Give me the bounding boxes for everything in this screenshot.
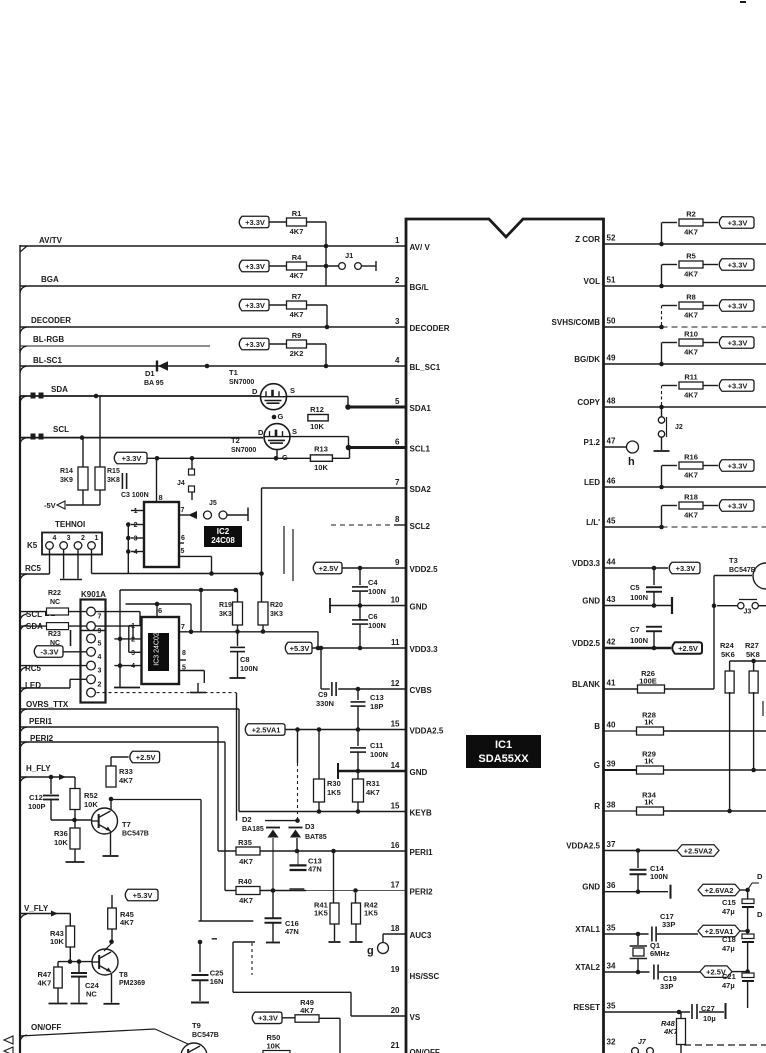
svg-text:10K: 10K	[314, 463, 328, 472]
svg-text:SDA55XX: SDA55XX	[478, 753, 529, 765]
svg-text:+3.3V: +3.3V	[728, 338, 748, 347]
svg-text:DECODER: DECODER	[31, 316, 71, 325]
svg-text:51: 51	[607, 276, 616, 285]
svg-text:R5: R5	[686, 252, 696, 261]
svg-text:BC547B: BC547B	[122, 831, 149, 838]
svg-text:BL-RGB: BL-RGB	[33, 335, 64, 344]
svg-text:10µ: 10µ	[703, 1014, 716, 1023]
svg-text:10K: 10K	[50, 937, 64, 946]
svg-text:R20: R20	[270, 602, 283, 609]
svg-text:49: 49	[607, 354, 616, 363]
svg-text:1: 1	[395, 236, 400, 245]
svg-text:3K8: 3K8	[107, 477, 120, 484]
svg-text:V_FLY: V_FLY	[24, 904, 49, 913]
svg-text:BA 95: BA 95	[144, 380, 164, 387]
svg-text:4K7: 4K7	[684, 270, 698, 279]
svg-text:SCL2: SCL2	[410, 522, 431, 531]
svg-text:BC547B: BC547B	[192, 1032, 219, 1039]
svg-text:R7: R7	[292, 292, 302, 301]
svg-text:SDA2: SDA2	[410, 485, 432, 494]
svg-text:CVBS: CVBS	[410, 686, 433, 695]
svg-text:1K: 1K	[644, 798, 654, 807]
svg-text:ON/OFF: ON/OFF	[31, 1023, 61, 1032]
svg-text:14: 14	[391, 761, 400, 770]
svg-text:HS/SSC: HS/SSC	[410, 972, 440, 981]
svg-text:D: D	[757, 872, 763, 881]
svg-text:36: 36	[607, 881, 616, 890]
svg-text:R10: R10	[684, 330, 698, 339]
svg-text:+2.6VA2: +2.6VA2	[705, 886, 734, 895]
svg-text:2: 2	[134, 522, 138, 529]
svg-text:L/L': L/L'	[586, 518, 600, 527]
svg-text:R12: R12	[310, 405, 324, 414]
svg-text:C11: C11	[370, 741, 383, 750]
svg-text:C8: C8	[240, 655, 250, 664]
svg-text:3: 3	[395, 317, 400, 326]
svg-text:BG/L: BG/L	[410, 283, 429, 292]
svg-text:8: 8	[159, 493, 163, 502]
svg-text:SCL1: SCL1	[410, 445, 431, 454]
svg-text:PM2369: PM2369	[119, 980, 145, 987]
svg-text:R23: R23	[48, 631, 61, 638]
svg-text:1K5: 1K5	[364, 909, 378, 918]
svg-text:21: 21	[391, 1041, 400, 1050]
svg-text:NC: NC	[86, 990, 97, 999]
svg-text:10: 10	[391, 596, 400, 605]
svg-text:AUC3: AUC3	[410, 931, 432, 940]
svg-text:SDA1: SDA1	[410, 404, 432, 413]
svg-text:9: 9	[395, 558, 400, 567]
svg-text:+3.3V: +3.3V	[728, 218, 748, 227]
svg-text:BAT85: BAT85	[305, 834, 327, 841]
svg-text:330N: 330N	[316, 699, 334, 708]
svg-text:33P: 33P	[662, 920, 675, 929]
svg-text:C12: C12	[29, 793, 43, 802]
svg-text:R27: R27	[745, 641, 759, 650]
svg-text:VDD3.3: VDD3.3	[572, 559, 601, 568]
svg-text:8: 8	[182, 650, 186, 657]
svg-text:4K7: 4K7	[684, 391, 698, 400]
svg-text:VDD2.5: VDD2.5	[572, 639, 601, 648]
svg-text:42: 42	[607, 638, 616, 647]
svg-text:15: 15	[391, 802, 400, 811]
svg-text:5: 5	[395, 397, 400, 406]
svg-text:11: 11	[391, 638, 400, 647]
svg-text:VDD3.3: VDD3.3	[410, 645, 439, 654]
svg-text:6: 6	[158, 606, 162, 615]
svg-text:BL-SC1: BL-SC1	[33, 356, 62, 365]
svg-text:R9: R9	[292, 331, 302, 340]
svg-text:46: 46	[607, 477, 616, 486]
svg-text:T3: T3	[729, 556, 738, 565]
svg-text:5K6: 5K6	[721, 650, 735, 659]
svg-text:SCL: SCL	[53, 425, 69, 434]
svg-text:47N: 47N	[308, 865, 322, 874]
svg-text:6: 6	[395, 438, 400, 447]
svg-text:5: 5	[181, 548, 185, 555]
svg-text:7: 7	[181, 624, 185, 631]
svg-text:D: D	[252, 387, 258, 396]
svg-text:BC547B: BC547B	[729, 567, 756, 574]
svg-text:1K5: 1K5	[314, 909, 328, 918]
svg-text:3: 3	[67, 535, 71, 542]
svg-text:ON/OFF: ON/OFF	[410, 1048, 440, 1053]
svg-text:100N: 100N	[630, 593, 648, 602]
svg-text:RC5: RC5	[25, 564, 42, 573]
svg-text:J7: J7	[638, 1039, 647, 1046]
svg-text:XTAL1: XTAL1	[575, 925, 600, 934]
svg-text:100N: 100N	[368, 587, 386, 596]
svg-text:2: 2	[81, 535, 85, 542]
svg-text:T7: T7	[122, 820, 131, 829]
svg-text:R18: R18	[684, 493, 698, 502]
svg-text:24C08: 24C08	[211, 536, 235, 545]
svg-text:47µ: 47µ	[722, 981, 735, 990]
svg-text:4K7: 4K7	[239, 896, 253, 905]
svg-text:-3.3V: -3.3V	[41, 647, 59, 656]
svg-text:VDDA2.5: VDDA2.5	[410, 727, 444, 736]
svg-text:+3.3V: +3.3V	[245, 301, 265, 310]
svg-text:C5: C5	[630, 583, 640, 592]
svg-text:4K7: 4K7	[684, 228, 698, 237]
svg-text:C25: C25	[210, 968, 224, 977]
svg-text:4K7: 4K7	[290, 271, 304, 280]
svg-text:G: G	[282, 453, 288, 462]
svg-text:4K7: 4K7	[290, 227, 304, 236]
svg-text:KEYB: KEYB	[410, 809, 432, 818]
svg-text:J5: J5	[209, 500, 217, 507]
svg-text:+3.3V: +3.3V	[258, 1014, 278, 1023]
svg-text:Z COR: Z COR	[575, 235, 600, 244]
svg-text:S: S	[290, 386, 295, 395]
svg-text:43: 43	[607, 595, 616, 604]
svg-text:R22: R22	[48, 590, 61, 597]
svg-text:52: 52	[607, 234, 616, 243]
svg-text:+2.5V: +2.5V	[678, 644, 698, 653]
svg-text:7: 7	[181, 507, 185, 514]
svg-text:J4: J4	[177, 480, 185, 487]
svg-text:P1.2: P1.2	[584, 438, 601, 447]
svg-text:C7: C7	[630, 625, 640, 634]
svg-text:+2.5V: +2.5V	[136, 753, 156, 762]
svg-text:1K: 1K	[644, 718, 654, 727]
svg-text:38: 38	[607, 801, 616, 810]
svg-text:D: D	[757, 910, 763, 919]
svg-text:16: 16	[391, 841, 400, 850]
svg-text:100N: 100N	[370, 750, 388, 759]
svg-text:PERI1: PERI1	[29, 717, 53, 726]
svg-text:3: 3	[131, 650, 135, 657]
svg-text:h: h	[628, 456, 635, 468]
svg-text:1: 1	[95, 535, 99, 542]
svg-text:6MHz: 6MHz	[650, 949, 670, 958]
svg-text:3K3: 3K3	[270, 611, 283, 618]
svg-text:+2.5VA1: +2.5VA1	[252, 725, 281, 734]
svg-text:D1: D1	[145, 369, 155, 378]
svg-text:R16: R16	[684, 453, 698, 462]
svg-text:R24: R24	[720, 641, 735, 650]
svg-text:5K8: 5K8	[746, 650, 760, 659]
svg-text:T2: T2	[231, 436, 240, 445]
svg-text:48: 48	[607, 397, 616, 406]
svg-text:D: D	[258, 428, 264, 437]
svg-text:2: 2	[98, 681, 102, 688]
svg-text:TEHNOI: TEHNOI	[55, 520, 85, 529]
svg-text:2: 2	[395, 276, 400, 285]
svg-text:D3: D3	[305, 822, 315, 831]
svg-text:5: 5	[98, 641, 102, 648]
svg-text:4K7: 4K7	[290, 310, 304, 319]
svg-text:C9: C9	[318, 690, 328, 699]
svg-text:PERI1: PERI1	[410, 848, 434, 857]
svg-text:+3.3V: +3.3V	[122, 454, 142, 463]
svg-text:19: 19	[391, 965, 400, 974]
svg-text:C21: C21	[722, 972, 736, 981]
svg-text:+3.3V: +3.3V	[245, 262, 265, 271]
svg-text:4K7: 4K7	[684, 311, 698, 320]
svg-text:4: 4	[131, 663, 135, 670]
svg-text:BL_SC1: BL_SC1	[410, 363, 441, 372]
svg-text:R: R	[594, 802, 600, 811]
svg-text:12: 12	[391, 679, 400, 688]
svg-text:4K7: 4K7	[119, 776, 133, 785]
svg-text:47µ: 47µ	[722, 907, 735, 916]
svg-text:50: 50	[607, 317, 616, 326]
svg-text:10K: 10K	[84, 800, 98, 809]
svg-text:BLANK: BLANK	[572, 680, 600, 689]
svg-text:SVHS/COMB: SVHS/COMB	[552, 318, 601, 327]
svg-text:C18: C18	[722, 935, 736, 944]
svg-text:C13: C13	[370, 693, 384, 702]
svg-text:J1: J1	[345, 251, 353, 260]
svg-text:1K: 1K	[644, 757, 654, 766]
svg-text:+2.5VA2: +2.5VA2	[684, 846, 713, 855]
svg-text:40: 40	[607, 721, 616, 730]
svg-text:3: 3	[98, 668, 102, 675]
svg-text:15: 15	[391, 720, 400, 729]
svg-text:4: 4	[53, 535, 57, 542]
svg-text:T9: T9	[192, 1021, 201, 1030]
svg-text:6: 6	[181, 535, 185, 542]
svg-text:7: 7	[395, 478, 400, 487]
svg-text:+3.3V: +3.3V	[676, 564, 696, 573]
svg-text:SN7000: SN7000	[229, 379, 254, 386]
svg-text:33P: 33P	[660, 982, 673, 991]
svg-text:37: 37	[607, 840, 616, 849]
svg-text:+5.3V: +5.3V	[290, 644, 310, 653]
svg-text:VS: VS	[410, 1013, 421, 1022]
svg-text:IC3 24C02: IC3 24C02	[154, 632, 161, 666]
svg-text:R8: R8	[686, 293, 696, 302]
svg-text:4K7: 4K7	[239, 857, 253, 866]
svg-text:R15: R15	[107, 468, 120, 475]
svg-text:4K7: 4K7	[120, 918, 134, 927]
svg-text:44: 44	[607, 558, 616, 567]
svg-text:SN7000: SN7000	[231, 447, 256, 454]
svg-text:8: 8	[395, 515, 400, 524]
svg-text:4K7: 4K7	[684, 348, 698, 357]
svg-text:100N: 100N	[630, 636, 648, 645]
svg-text:IC2: IC2	[217, 527, 230, 536]
svg-text:VDD2.5: VDD2.5	[410, 565, 439, 574]
svg-text:XTAL2: XTAL2	[575, 963, 600, 972]
svg-text:R33: R33	[119, 767, 133, 776]
svg-text:+3.3V: +3.3V	[728, 260, 748, 269]
svg-text:D2: D2	[242, 815, 252, 824]
svg-text:100E: 100E	[639, 677, 657, 686]
svg-text:BG/DK: BG/DK	[574, 355, 600, 364]
svg-text:R31: R31	[366, 779, 380, 788]
svg-text:GND: GND	[410, 768, 428, 777]
svg-text:35: 35	[607, 1002, 616, 1011]
svg-text:100N: 100N	[368, 621, 386, 630]
svg-text:R11: R11	[684, 373, 697, 382]
svg-text:C4: C4	[368, 578, 378, 587]
svg-text:VDDA2.5: VDDA2.5	[566, 842, 600, 851]
svg-text:18P: 18P	[370, 702, 383, 711]
svg-text:B: B	[594, 722, 600, 731]
svg-text:100P: 100P	[28, 802, 46, 811]
svg-text:4: 4	[98, 654, 102, 661]
svg-text:45: 45	[607, 517, 616, 526]
svg-text:LED: LED	[584, 478, 600, 487]
svg-text:J2: J2	[675, 424, 683, 431]
svg-text:+2.5V: +2.5V	[319, 564, 339, 573]
svg-text:10K: 10K	[267, 1042, 281, 1051]
svg-text:G: G	[278, 412, 284, 421]
svg-text:-5V: -5V	[44, 501, 56, 510]
svg-text:2K2: 2K2	[290, 349, 304, 358]
svg-text:g: g	[367, 945, 374, 957]
svg-text:R52: R52	[84, 791, 98, 800]
svg-text:T1: T1	[229, 368, 238, 377]
svg-text:47N: 47N	[285, 927, 299, 936]
svg-text:R2: R2	[686, 210, 696, 219]
svg-text:10K: 10K	[54, 838, 68, 847]
svg-text:AV/ V: AV/ V	[410, 243, 431, 252]
svg-text:18: 18	[391, 924, 400, 933]
svg-text:R35: R35	[238, 838, 252, 847]
svg-text:T8: T8	[119, 970, 128, 979]
svg-text:AV/TV: AV/TV	[39, 236, 63, 245]
svg-text:10K: 10K	[310, 422, 324, 431]
svg-text:C3 100N: C3 100N	[121, 492, 149, 499]
svg-text:47µ: 47µ	[722, 944, 735, 953]
svg-text:4: 4	[134, 549, 138, 556]
svg-text:R1: R1	[292, 209, 302, 218]
svg-text:R36: R36	[54, 829, 68, 838]
svg-text:4: 4	[395, 356, 400, 365]
svg-text:4K7: 4K7	[38, 979, 52, 988]
svg-text:C6: C6	[368, 612, 378, 621]
svg-text:S: S	[292, 427, 297, 436]
svg-text:9: 9	[98, 628, 102, 635]
svg-text:20: 20	[391, 1006, 400, 1015]
svg-text:BGA: BGA	[41, 275, 59, 284]
svg-text:+3.3V: +3.3V	[728, 301, 748, 310]
svg-text:R40: R40	[238, 877, 252, 886]
svg-text:OVRS_TTX: OVRS_TTX	[26, 700, 69, 709]
svg-text:COPY: COPY	[577, 398, 600, 407]
svg-text:R14: R14	[60, 468, 73, 475]
svg-text:+5.3V: +5.3V	[133, 891, 153, 900]
svg-text:32: 32	[607, 1038, 616, 1047]
svg-text:SDA: SDA	[51, 385, 68, 394]
svg-text:+3.3V: +3.3V	[728, 461, 748, 470]
svg-text:+3.3V: +3.3V	[245, 218, 265, 227]
svg-text:GND: GND	[582, 883, 600, 892]
svg-text:17: 17	[391, 881, 400, 890]
svg-text:100N: 100N	[240, 664, 258, 673]
svg-text:J3: J3	[744, 609, 752, 616]
svg-text:IC1: IC1	[495, 739, 512, 751]
svg-text:VOL: VOL	[584, 277, 601, 286]
svg-text:16N: 16N	[210, 977, 224, 986]
svg-text:+3.3V: +3.3V	[245, 340, 265, 349]
svg-text:1K5: 1K5	[327, 788, 341, 797]
svg-text:+3.3V: +3.3V	[728, 501, 748, 510]
svg-text:+3.3V: +3.3V	[728, 381, 748, 390]
svg-text:R30: R30	[327, 779, 341, 788]
svg-text:34: 34	[607, 962, 616, 971]
svg-text:C15: C15	[722, 898, 736, 907]
svg-text:K5: K5	[27, 541, 38, 550]
svg-text:PERI2: PERI2	[410, 888, 434, 897]
svg-text:R13: R13	[314, 445, 328, 454]
svg-text:1: 1	[134, 508, 138, 515]
svg-text:G: G	[594, 761, 600, 770]
svg-text:NC: NC	[50, 599, 60, 606]
svg-text:3K3: 3K3	[219, 611, 232, 618]
svg-text:RESET: RESET	[573, 1003, 600, 1012]
svg-text:39: 39	[607, 760, 616, 769]
svg-text:47: 47	[607, 437, 616, 446]
svg-text:3K9: 3K9	[60, 477, 73, 484]
svg-text:R4: R4	[292, 253, 302, 262]
svg-text:41: 41	[607, 679, 616, 688]
svg-text:4K7: 4K7	[684, 471, 698, 480]
svg-text:35: 35	[607, 924, 616, 933]
svg-text:GND: GND	[410, 603, 428, 612]
svg-text:4K7: 4K7	[684, 511, 698, 520]
svg-text:GND: GND	[582, 597, 600, 606]
svg-text:4K7: 4K7	[366, 788, 380, 797]
svg-text:DECODER: DECODER	[410, 324, 450, 333]
svg-text:100N: 100N	[650, 872, 668, 881]
svg-text:3: 3	[134, 536, 138, 543]
svg-text:K901A: K901A	[81, 590, 106, 599]
svg-text:4K7: 4K7	[300, 1006, 314, 1015]
svg-text:H_FLY: H_FLY	[26, 764, 51, 773]
svg-text:R19: R19	[219, 602, 232, 609]
svg-text:BA185: BA185	[242, 826, 264, 833]
svg-text:7: 7	[98, 614, 102, 621]
svg-text:C27: C27	[701, 1004, 715, 1013]
